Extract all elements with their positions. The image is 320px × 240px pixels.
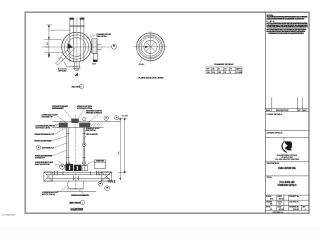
title box — [265, 175, 309, 177]
under-band ticks — [60, 128, 90, 130]
concrete surround hatch — [53, 123, 104, 127]
valve flange cluster — [65, 164, 81, 171]
revision table — [265, 98, 309, 112]
svg-text:ENGINEERING DIVISION: ENGINEERING DIVISION — [277, 155, 298, 157]
sheet border — [25, 12, 309, 213]
riser joint ticks — [66, 133, 69, 135]
description box — [265, 161, 309, 163]
svg-text:600 MIN: 600 MIN — [122, 116, 129, 118]
plan right flange — [92, 39, 97, 54]
title column divider — [264, 12, 266, 213]
riser wall bubble — [83, 143, 86, 146]
plan vertical centreline — [76, 18, 78, 73]
svg-text:OFFTAKE: OFFTAKE — [58, 70, 67, 73]
svg-text:122: 122 — [212, 72, 215, 74]
svg-text:DN100 FLANGED RISER: DN100 FLANGED RISER — [34, 139, 52, 142]
svg-text:TITLE: TITLE — [267, 177, 273, 179]
ground line — [57, 190, 96, 192]
svg-text:SYSTEM IN ACCORDANCE WITH RELE: SYSTEM IN ACCORDANCE WITH RELEVANT SPECI… — [268, 32, 304, 35]
bolt ticks on slab — [54, 171, 56, 175]
svg-text:File: ST0001 P.DWG: File: ST0001 P.DWG — [3, 215, 16, 217]
left end cap — [44, 172, 53, 181]
svg-text:DRG 0002 TYP: DRG 0002 TYP — [42, 116, 54, 118]
svg-text:BLOCK 200 SQ: BLOCK 200 SQ — [42, 194, 56, 196]
svg-text:2: 2 — [82, 202, 83, 204]
svg-text:REV: REV — [303, 206, 306, 208]
svg-text:SUIT ROAD LEVEL: SUIT ROAD LEVEL — [35, 126, 51, 129]
svg-text:600: 600 — [47, 42, 49, 45]
plan right bubble — [112, 44, 117, 49]
plan diagonal end cap — [56, 57, 64, 65]
svg-text:FLANGE DETAIL (FULL BORE): FLANGE DETAIL (FULL BORE) — [139, 77, 164, 80]
svg-text:1: 1 — [81, 86, 82, 88]
svg-text:102: 102 — [218, 72, 221, 74]
plan diagonal offtake walls — [58, 45, 72, 59]
svg-text:STD-001: STD-001 — [293, 209, 299, 211]
title block grid — [265, 195, 309, 210]
svg-text:DEPTH: DEPTH — [236, 68, 242, 70]
svg-text:SEE DETAIL: SEE DETAIL — [97, 35, 108, 38]
right dimension lines — [118, 118, 127, 181]
svg-text:DESCRIPTION: DESCRIPTION — [276, 110, 289, 112]
cover frame blocks — [59, 123, 68, 128]
svg-text:PIPE: PIPE — [109, 182, 116, 184]
svg-text:PROJECT No: PROJECT No — [289, 196, 299, 198]
svg-text:2.5 MIN: 2.5 MIN — [236, 72, 243, 74]
plan middle circle — [64, 35, 88, 59]
svg-text:FRAME ASSEMBLY: FRAME ASSEMBLY — [52, 107, 65, 110]
plan horizontal pipe walls — [91, 43, 92, 45]
plan right stub — [97, 44, 101, 46]
svg-text:STANDARD DETAILS: STANDARD DETAILS — [278, 184, 297, 187]
plan right lower box — [93, 53, 97, 60]
valve outline hardware — [82, 166, 88, 171]
svg-text:100: 100 — [207, 72, 210, 74]
svg-text:SEE DETAIL: SEE DETAIL — [86, 129, 97, 132]
plan bottom stub — [73, 62, 75, 69]
lower bell — [68, 181, 84, 189]
svg-text:ANCHOR BLOCK: ANCHOR BLOCK — [42, 147, 55, 150]
logo address lines — [275, 155, 299, 161]
support slab and barrel — [44, 160, 113, 192]
svg-text:DN100 FULL BORE MAIN PIPE: DN100 FULL BORE MAIN PIPE — [71, 194, 90, 197]
svg-text:8: 8 — [230, 72, 231, 74]
chamber box — [94, 160, 105, 169]
logo — [282, 138, 293, 154]
plan inner circle — [67, 38, 86, 57]
svg-text:DN100 TEE: DN100 TEE — [96, 161, 105, 163]
plan flow wedge — [68, 43, 73, 48]
svg-text:GATE VALVE FLGD: GATE VALVE FLGD — [35, 163, 51, 166]
plan riser joint lines — [69, 25, 84, 27]
svg-text:EF: EF — [270, 209, 272, 211]
flange detail spokes — [146, 42, 155, 51]
svg-text:NTS: NTS — [270, 199, 273, 201]
plan left dimension — [44, 25, 70, 58]
plan outer circle — [62, 32, 92, 62]
valve bubble — [60, 164, 65, 169]
elevation labels — [34, 105, 116, 197]
svg-text:10: 10 — [224, 72, 226, 74]
svg-text:SECTION: SECTION — [70, 203, 82, 205]
svg-text:FINISHED SURFACE: FINISHED SURFACE — [86, 112, 103, 115]
cover level line — [52, 120, 120, 122]
svg-text:COMPACTED BASE FILL TYP: COMPACTED BASE FILL TYP — [34, 133, 55, 136]
svg-text:PIPE SUPPORT: PIPE SUPPORT — [86, 134, 99, 136]
elevation centreline — [75, 115, 77, 191]
flange detail centrelines — [150, 31, 152, 63]
plan horizontal centreline — [42, 46, 104, 48]
svg-text:OWNER DETAILS: OWNER DETAILS — [267, 132, 283, 135]
svg-text:CLIENT DETAILS: CLIENT DETAILS — [267, 113, 283, 116]
svg-text:ELEVATION: ELEVATION — [71, 208, 84, 211]
svg-text:EVALUATION USE: EVALUATION USE — [278, 167, 296, 170]
plan riser caps — [69, 18, 74, 20]
svg-text:900: 900 — [119, 152, 121, 155]
plan twin riser walls — [69, 20, 71, 62]
plan bottom arrow — [74, 73, 78, 76]
cover slab band bottom — [52, 127, 104, 129]
flange detail leader — [141, 59, 143, 63]
svg-text:DESCRIPTION: DESCRIPTION — [267, 163, 280, 165]
spindle cap — [72, 119, 79, 123]
flange detail circles — [137, 33, 165, 61]
notes block — [266, 15, 308, 35]
plan flange leader — [85, 35, 96, 39]
right end cap — [101, 172, 111, 181]
riser walls — [66, 128, 86, 166]
plan bubble letter — [113, 45, 115, 47]
svg-text:FULL BORE AND: FULL BORE AND — [280, 181, 295, 184]
bubble callouts — [104, 116, 108, 120]
bubble letters — [38, 117, 117, 189]
svg-text:SYSTEM TYP: SYSTEM TYP — [35, 158, 46, 160]
leader lines — [52, 110, 98, 194]
svg-text:CHAMFER DETAILS: CHAMFER DETAILS — [214, 63, 234, 66]
svg-text:150: 150 — [92, 64, 96, 66]
plan lower-left junction — [64, 61, 74, 66]
